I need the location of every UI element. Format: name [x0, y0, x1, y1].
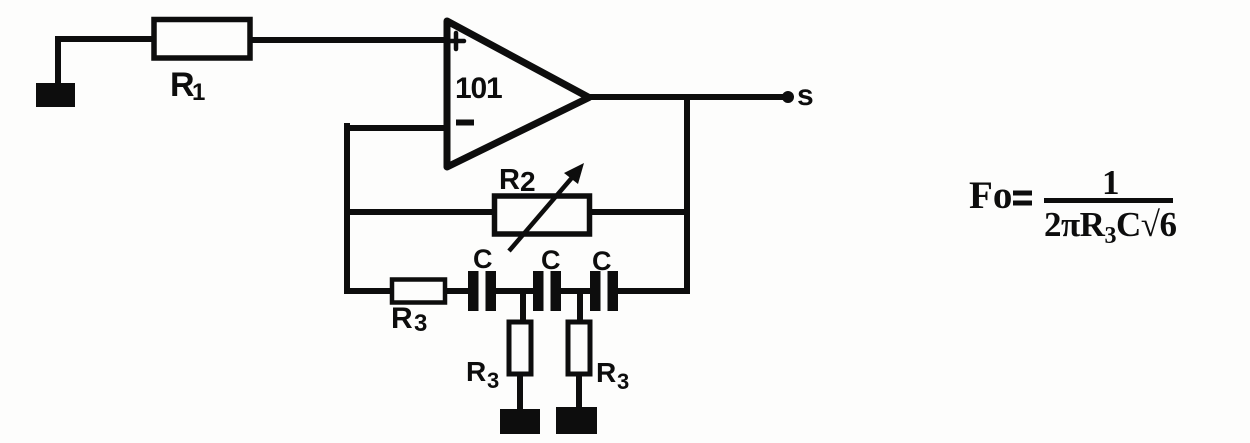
svg-text:R: R: [596, 357, 616, 388]
svg-text:3: 3: [617, 369, 629, 394]
svg-text:101: 101: [455, 72, 502, 105]
svg-text:R: R: [170, 66, 195, 104]
svg-text:C: C: [541, 245, 561, 275]
svg-text:3: 3: [487, 368, 499, 393]
svg-text:C: C: [473, 244, 493, 274]
svg-text:1: 1: [1102, 163, 1120, 202]
svg-text:R: R: [391, 302, 413, 335]
svg-text:Fo: Fo: [969, 174, 1012, 217]
svg-text:R: R: [466, 356, 486, 387]
svg-text:2: 2: [520, 166, 536, 197]
svg-text:s: s: [797, 79, 814, 112]
svg-text:C: C: [592, 246, 612, 276]
svg-text:1: 1: [192, 79, 205, 106]
svg-text:3: 3: [414, 310, 427, 337]
svg-text:R: R: [499, 164, 520, 196]
